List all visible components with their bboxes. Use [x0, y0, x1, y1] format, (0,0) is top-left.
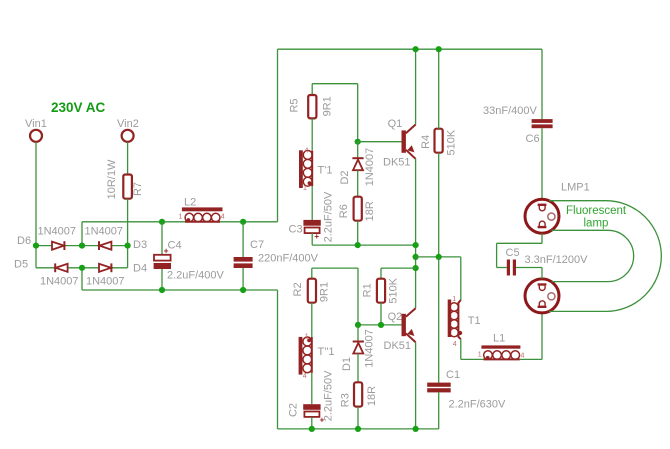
wire T1 bottom — [460, 339, 462, 359]
svg-text:LMP1: LMP1 — [561, 181, 590, 193]
svg-text:D1: D1 — [341, 357, 353, 371]
svg-text:4: 4 — [221, 214, 225, 221]
svg-text:+: + — [164, 245, 169, 255]
terminal Vin2 — [117, 118, 139, 142]
wire top rail — [278, 48, 543, 50]
svg-text:Q2: Q2 — [388, 311, 403, 323]
wire R4 bottom — [438, 153, 440, 257]
wire to C5 branch top — [497, 242, 542, 244]
svg-text:R3: R3 — [339, 393, 351, 407]
wire R2 top stub — [311, 268, 313, 279]
svg-text:2.2uF/50V: 2.2uF/50V — [323, 370, 335, 421]
svg-text:C6: C6 — [526, 133, 540, 145]
wire D2 to R6 — [357, 170, 359, 197]
wire R5 bottom to T'1 — [311, 118, 313, 150]
svg-text:510K: 510K — [446, 129, 458, 155]
wire bridge right column — [127, 246, 129, 268]
wire R3 bottom — [357, 407, 359, 429]
svg-text:1N4007: 1N4007 — [86, 276, 125, 288]
transistor Q2 — [384, 308, 416, 352]
junction dot R3 rail — [355, 426, 361, 432]
resistor R2 — [292, 279, 331, 303]
svg-text:R7: R7 — [132, 182, 144, 196]
wire L1 to lamp riser — [520, 358, 542, 360]
capacitor C4 — [154, 240, 225, 282]
svg-text:C7: C7 — [250, 239, 264, 251]
svg-text:1: 1 — [179, 214, 183, 221]
svg-text:D2: D2 — [339, 170, 351, 184]
capacitor C6 — [483, 105, 553, 145]
junction dot R6 bottom — [355, 242, 361, 248]
diode D3 — [85, 226, 148, 251]
wire drop to bottom lamp top pin — [541, 268, 543, 279]
transformer winding T''1 — [299, 334, 335, 381]
svg-text:C1: C1 — [446, 369, 460, 381]
wire T1 top — [460, 257, 462, 300]
wire Vin2 down to R7 — [127, 142, 129, 174]
svg-text:R1: R1 — [362, 283, 374, 297]
transformer T1 — [448, 296, 481, 348]
wire R1 top stub — [380, 268, 382, 279]
capacitor C5 — [506, 247, 589, 276]
junction dot midpoint upper — [413, 242, 419, 248]
inductor L2 — [179, 196, 225, 222]
svg-text:L1: L1 — [493, 332, 505, 344]
junction dot R4 rail — [436, 46, 442, 52]
svg-text:R2: R2 — [292, 282, 304, 296]
capacitor C3 — [289, 191, 335, 242]
wire C1 bottom — [438, 392, 440, 429]
wire D1 to R3 — [357, 354, 359, 383]
wire R1 top horizontal right — [381, 267, 416, 269]
transistor Q1 — [383, 118, 416, 169]
svg-text:2.2nF/630V: 2.2nF/630V — [449, 398, 507, 410]
wire base node to D2 — [357, 142, 359, 158]
svg-text:1: 1 — [478, 351, 482, 358]
wire lamp tube inner loop — [552, 230, 634, 281]
resistor R1 — [362, 277, 400, 303]
svg-text:C4: C4 — [168, 240, 182, 252]
capacitor C2 — [288, 370, 335, 425]
wire to C5 left — [497, 267, 507, 269]
svg-text:C5: C5 — [506, 247, 520, 259]
junction dot C7 top — [240, 219, 246, 225]
wire C5 right to bottom lamp — [516, 267, 542, 269]
junction dot midpoint mid — [413, 254, 419, 260]
svg-text:2.2uF/400V: 2.2uF/400V — [167, 270, 225, 282]
resistor R7 — [106, 159, 144, 199]
wire C7 top — [242, 222, 244, 257]
junction dot C7 bottom — [240, 287, 246, 293]
wire Vin1 down to bridge — [35, 142, 37, 246]
svg-text:Vin2: Vin2 — [117, 118, 139, 130]
svg-text:R4: R4 — [420, 135, 432, 149]
diode D5 — [14, 259, 79, 288]
svg-text:T''1: T''1 — [318, 346, 335, 358]
svg-text:4: 4 — [303, 373, 307, 380]
svg-text:230V AC: 230V AC — [51, 100, 106, 115]
capacitor C1 — [427, 369, 506, 411]
svg-text:18R: 18R — [366, 386, 378, 406]
svg-text:1N4007: 1N4007 — [364, 148, 376, 187]
wire C6 to top lamp — [541, 128, 543, 199]
wire Q2 base — [358, 324, 402, 326]
wire bridge mid column to DC+ — [81, 222, 83, 246]
svg-text:T'1: T'1 — [318, 164, 333, 176]
svg-text:1N4007: 1N4007 — [364, 329, 376, 368]
wire to Q2 base node — [357, 268, 359, 325]
wire DC- rail — [82, 289, 278, 291]
svg-text:1: 1 — [452, 296, 456, 303]
diode D2 — [339, 148, 376, 187]
capacitor C7 — [234, 239, 319, 268]
wire base node to D1 — [357, 325, 359, 341]
junction dot C4 top — [159, 219, 165, 225]
svg-text:2.2uF/50V: 2.2uF/50V — [323, 191, 335, 242]
wire T''1 to C2 — [311, 373, 313, 404]
junction dot midpoint lower — [413, 265, 419, 271]
svg-text:1N4007: 1N4007 — [40, 276, 79, 288]
svg-text:4: 4 — [305, 147, 309, 154]
diode D1 — [341, 329, 376, 371]
wire bridge mid column to DC- — [81, 268, 83, 290]
svg-text:DK51: DK51 — [383, 157, 411, 169]
svg-text:4: 4 — [521, 352, 525, 359]
svg-text:18R: 18R — [364, 201, 376, 221]
wire midnode horizontal to T1 — [416, 256, 461, 258]
wire DC+ riser — [277, 49, 279, 222]
resistor R3 — [339, 382, 378, 407]
junction dot Q2 base node left — [355, 322, 361, 328]
svg-text:R6: R6 — [338, 204, 350, 218]
resistor R5 — [289, 95, 334, 118]
junction dot bridge AC2 — [125, 243, 131, 249]
wire top rail to C6 — [541, 49, 543, 119]
wire C1 top column — [438, 257, 440, 383]
svg-text:10R/1W: 10R/1W — [106, 159, 118, 199]
svg-text:3.3nF/1200V: 3.3nF/1200V — [525, 254, 589, 266]
wire Q1 base — [358, 141, 402, 143]
diode D4 — [86, 263, 147, 288]
svg-text:1: 1 — [303, 185, 307, 192]
wire C4 top — [161, 222, 163, 255]
junction dot R1 bottom — [378, 322, 384, 328]
wire C3 bottom — [311, 233, 313, 245]
svg-text:L2: L2 — [184, 196, 196, 208]
wire T'1 to C3 — [311, 186, 313, 220]
wire C4 bottom — [161, 269, 163, 290]
junction dot bridge DC+ — [79, 243, 85, 249]
svg-text:D6: D6 — [17, 235, 31, 247]
svg-text:Vin1: Vin1 — [25, 118, 47, 130]
wire C7 bottom — [242, 268, 244, 290]
wire R2 bottom to T''1 — [311, 303, 313, 337]
svg-text:lamp: lamp — [584, 217, 609, 229]
wire R1 bottom — [380, 303, 382, 325]
wire R7 to bridge — [127, 199, 129, 246]
diode D6 — [17, 226, 76, 251]
svg-text:9R1: 9R1 — [321, 96, 333, 116]
svg-text:R5: R5 — [289, 98, 301, 112]
wire bridge bottom row — [36, 267, 128, 269]
svg-text:C2: C2 — [288, 403, 300, 417]
svg-text:T1: T1 — [468, 315, 481, 327]
junction dot R4/C1 node — [436, 254, 442, 260]
wire T1 to L1 — [461, 358, 484, 360]
terminal Vin1 — [25, 118, 47, 142]
svg-text:D4: D4 — [133, 263, 147, 275]
resistor R6 — [338, 197, 376, 222]
junction dot Q1 collector rail — [413, 46, 419, 52]
wire R5 top stub — [311, 84, 313, 95]
wire lamp tube outer loop — [549, 201, 661, 312]
wire R2 R1 top horizontal left — [312, 267, 358, 269]
svg-text:510K: 510K — [388, 277, 400, 303]
wire bridge top row — [36, 245, 128, 247]
junction dot bridge DC- — [79, 265, 85, 271]
wire R4 top — [438, 49, 440, 129]
junction dot bridge AC1 top — [33, 243, 39, 249]
svg-text:DK51: DK51 — [384, 340, 412, 352]
svg-text:1N4007: 1N4007 — [85, 226, 124, 238]
transformer winding T'1 — [299, 147, 332, 192]
svg-text:D3: D3 — [133, 239, 147, 251]
wire midnode horizontal upper — [312, 244, 415, 246]
wire R5 top route horizontal — [312, 83, 358, 85]
svg-text:D5: D5 — [14, 259, 28, 271]
wire bottom rail — [278, 428, 439, 430]
svg-text:220nF/400V: 220nF/400V — [258, 253, 319, 265]
svg-text:33nF/400V: 33nF/400V — [483, 105, 537, 117]
lamp bottom socket — [525, 279, 559, 313]
svg-text:4: 4 — [453, 341, 457, 348]
wire bridge left column — [35, 246, 37, 268]
svg-text:9R1: 9R1 — [319, 282, 331, 302]
wire C2 bottom — [311, 417, 313, 429]
wire Q1 collector up — [415, 49, 417, 124]
svg-text:Q1: Q1 — [388, 118, 403, 130]
wire R5 route down to base node — [357, 84, 359, 142]
wire DC+ rail right of L2 — [220, 221, 277, 223]
wire C5 branch left drop — [496, 243, 498, 267]
junction dot C4 bottom — [159, 287, 165, 293]
resistor R4 — [420, 129, 458, 156]
junction dot C2 rail — [309, 426, 315, 432]
wire midpoint column — [415, 159, 417, 308]
wire riser to bottom lamp — [541, 313, 543, 359]
svg-text:1N4007: 1N4007 — [38, 226, 77, 238]
wire Q2 emitter down — [415, 342, 417, 429]
wire DC+ rail left — [82, 221, 185, 223]
junction dot Q2 emitter rail — [413, 426, 419, 432]
svg-text:C3: C3 — [289, 224, 303, 236]
svg-text:+: + — [314, 231, 319, 241]
wire top lamp bottom pin down — [541, 233, 543, 243]
junction dot Q1 base node — [355, 139, 361, 145]
inductor L1 — [478, 332, 525, 359]
lamp top socket — [525, 199, 559, 233]
svg-text:Fluorescent: Fluorescent — [566, 205, 627, 217]
wire R6 bottom — [357, 221, 359, 245]
wire DC- drop — [277, 290, 279, 429]
